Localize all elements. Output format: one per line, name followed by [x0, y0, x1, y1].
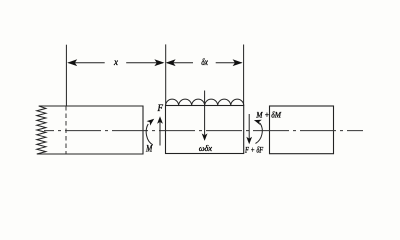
- svg-text:M: M: [145, 144, 153, 154]
- extension line at element right face: [243, 45, 245, 106]
- centerline (dash-dot neutral axis): [44, 130, 363, 132]
- dimension line x: [69, 62, 164, 64]
- svg-text:x: x: [113, 57, 118, 67]
- middle beam element body: [166, 106, 244, 154]
- distributed load humps w: [166, 99, 244, 105]
- dimension arrowhead left (delta-x): [166, 59, 176, 66]
- svg-text:ωδx: ωδx: [199, 143, 213, 153]
- svg-text:F + δF: F + δF: [244, 145, 264, 155]
- dashed section line at distance x: [65, 106, 67, 154]
- shear force arrow F (up, left face): [159, 122, 161, 146]
- dimension arrowhead left (x): [67, 59, 77, 66]
- svg-text:M + δM: M + δM: [255, 109, 281, 119]
- left beam segment body: [39, 106, 143, 154]
- shear force arrow F+dF (down, right face): [248, 114, 250, 139]
- dimension line delta-x: [167, 62, 242, 64]
- distributed load resultant arrow: [204, 91, 206, 136]
- dimension arrowhead right (x): [154, 59, 164, 66]
- svg-text:δx: δx: [201, 57, 208, 67]
- right beam segment body: [270, 106, 334, 154]
- svg-text:F: F: [157, 103, 164, 113]
- zigzag broken edge of left beam: [37, 106, 46, 154]
- bending moment arc M (counterclockwise, left): [146, 124, 153, 145]
- extension line at section x: [65, 45, 67, 106]
- dimension arrowhead right (delta-x): [233, 59, 243, 66]
- bending moment arc M+dM (clockwise, right): [256, 123, 263, 143]
- extension line at element left face: [165, 44, 167, 105]
